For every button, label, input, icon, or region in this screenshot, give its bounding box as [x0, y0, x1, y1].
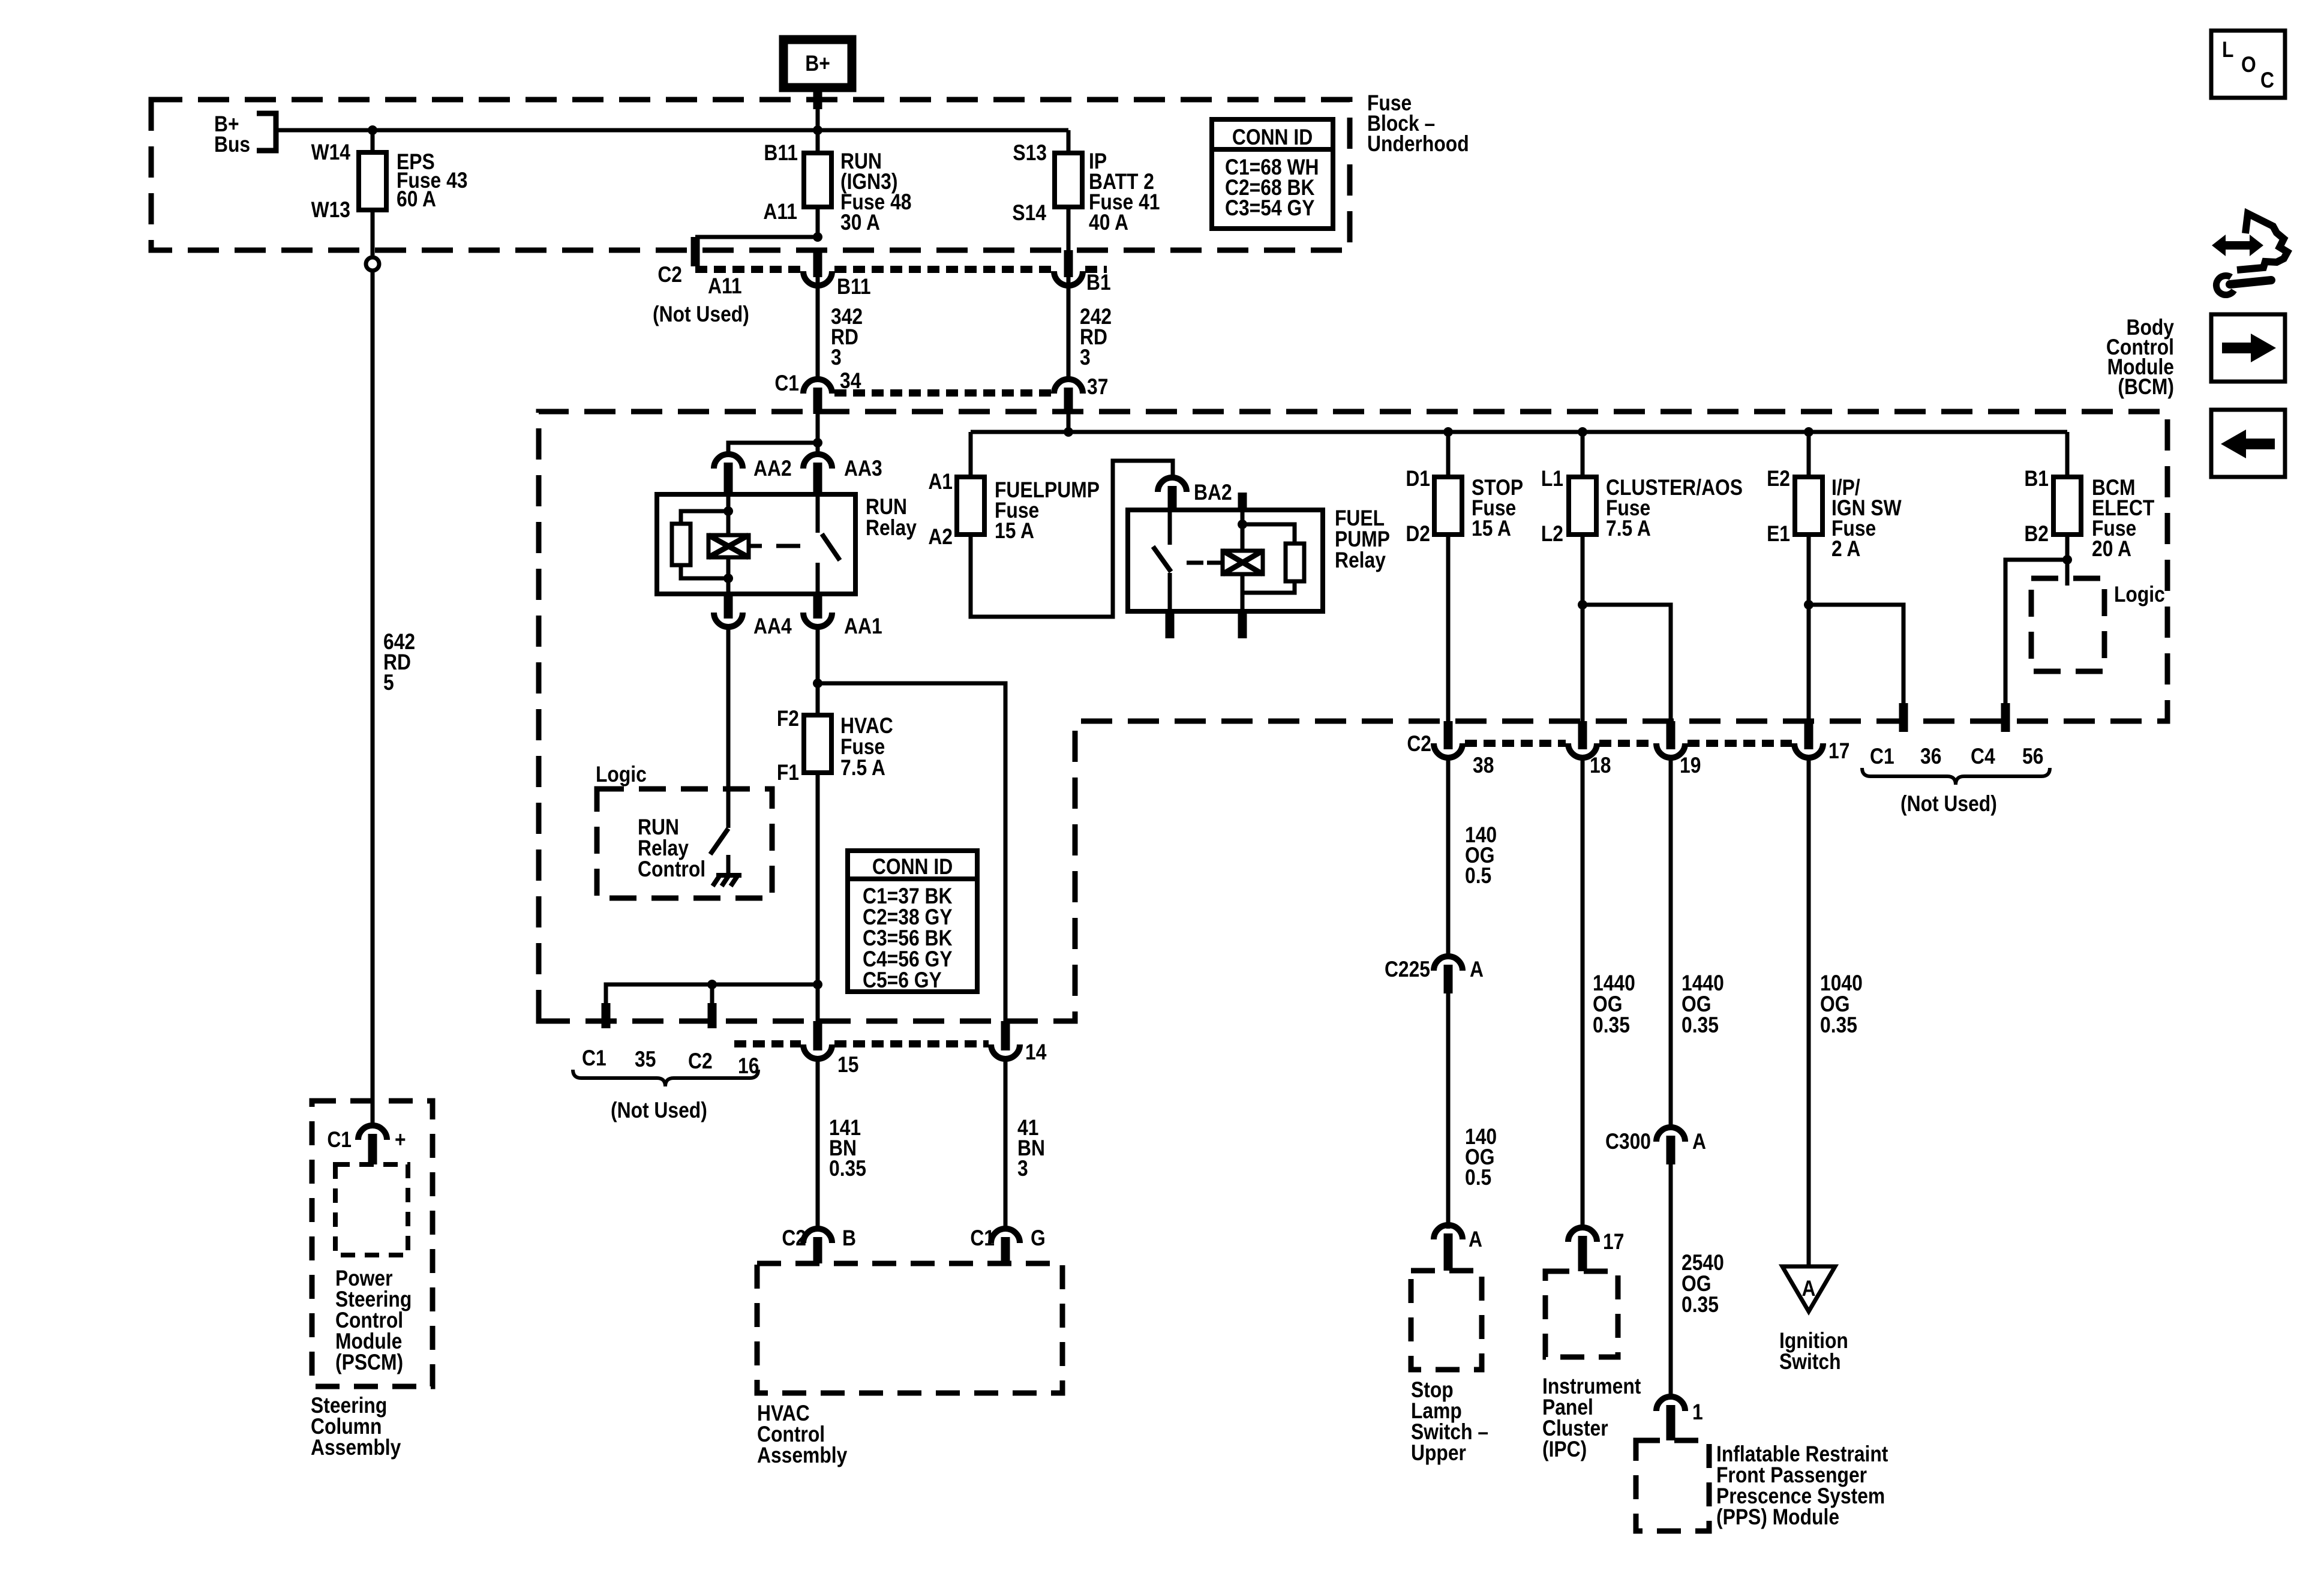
B+ power symbol box: [783, 40, 852, 88]
splice ring at fuse block exit: [366, 257, 379, 271]
resistor branch top wire: [681, 511, 728, 524]
svg-text:A: A: [1802, 1277, 1816, 1301]
svg-text:0.5: 0.5: [1465, 1166, 1491, 1190]
svg-text:CONN ID: CONN ID: [1232, 125, 1313, 150]
wire IP fuse column: [1067, 130, 1071, 250]
pin C1-G: [1001, 1237, 1010, 1263]
svg-text:3: 3: [831, 346, 842, 370]
brace not used left: [573, 1070, 758, 1086]
relay coil RUN: [708, 535, 749, 557]
svg-text:C1: C1: [774, 371, 799, 396]
svg-text:(PSCM): (PSCM): [335, 1350, 403, 1375]
connector cup AA4: [714, 613, 743, 627]
svg-text:AA2: AA2: [753, 457, 792, 481]
junction dot branch to 14: [813, 679, 822, 688]
svg-text:C2: C2: [1407, 732, 1431, 757]
svg-text:Switch: Switch: [1779, 1350, 1841, 1374]
wire B+ feed down to bus: [816, 107, 820, 154]
pin 15: [813, 1021, 822, 1050]
junction dot bus CLUSTER: [1578, 427, 1587, 437]
dotted connector line 34-37: [834, 389, 1052, 397]
wire 141 BN to HVAC: [816, 1059, 820, 1229]
ground stem: [726, 855, 731, 875]
fuel pump relay coil: [1223, 551, 1263, 574]
wire branch to connector 14: [818, 683, 1005, 1021]
svg-text:B: B: [842, 1226, 856, 1251]
svg-text:(Not Used): (Not Used): [1900, 792, 1997, 816]
pin C1-35 not used: [602, 1003, 611, 1028]
connector cup AA2: [714, 454, 743, 469]
svg-text:15 A: 15 A: [995, 519, 1034, 544]
relay switch fixed contact: [816, 494, 820, 533]
ignition switch triangle: [1782, 1266, 1835, 1311]
fuel pump relay linkage dash: [1187, 561, 1203, 565]
wire EPS column: [371, 130, 375, 257]
pin C300-A: [1667, 1136, 1676, 1164]
dotted line 18-19: [1599, 740, 1654, 747]
svg-text:A: A: [1469, 1227, 1482, 1252]
svg-text:C1: C1: [582, 1046, 606, 1071]
pin A stop lamp: [1444, 1233, 1453, 1271]
fuse IP BATT 2 Fuse 41: [1055, 153, 1082, 207]
connector cup A stop lamp: [1434, 1225, 1463, 1239]
svg-text:2 A: 2 A: [1831, 537, 1860, 562]
forward arrow legend box: [2211, 314, 2285, 382]
brace not used right: [1862, 768, 2050, 785]
logic dashed box RUN relay control: [597, 789, 772, 898]
svg-text:37: 37: [1087, 375, 1108, 400]
connector cup C2-38: [1434, 743, 1463, 758]
svg-text:0.35: 0.35: [1682, 1293, 1719, 1317]
svg-text:AA3: AA3: [844, 457, 882, 481]
svg-text:56: 56: [2022, 745, 2043, 769]
svg-text:C2: C2: [657, 263, 682, 287]
wire branch to connector 19: [1583, 605, 1671, 721]
svg-text:35: 35: [635, 1047, 656, 1072]
connector cup 17 bcm: [1794, 743, 1823, 758]
connector cup 37: [1054, 379, 1083, 394]
wire FUELPUMP loop: [971, 432, 1173, 617]
wire branch to connector 56: [2005, 560, 2067, 706]
connector cup C2-B: [803, 1229, 832, 1243]
relay linkage stub: [749, 544, 762, 548]
junction dot ign branch: [1804, 600, 1813, 610]
pin 37 into BCM: [1064, 388, 1073, 414]
pin C2-38: [1444, 721, 1453, 749]
wire 37 to BCM bus: [1067, 413, 1071, 432]
junction dot coil top: [723, 506, 733, 516]
pin 17 bcm: [1804, 721, 1813, 749]
resistor fuel pump relay: [1286, 544, 1304, 581]
svg-text:C1: C1: [970, 1226, 995, 1251]
svg-text:38: 38: [1473, 754, 1494, 778]
RUN relay box: [657, 494, 855, 594]
fuse FUELPUMP: [957, 477, 984, 535]
svg-text:Bus: Bus: [214, 133, 250, 157]
svg-text:D1: D1: [1406, 467, 1430, 491]
pin BA2: [1168, 486, 1177, 510]
fuel pump relay switch blade: [1153, 547, 1171, 572]
svg-text:E1: E1: [1767, 522, 1790, 547]
svg-text:7.5 A: 7.5 A: [1606, 517, 1651, 541]
PSCM inner dashed box: [335, 1164, 408, 1255]
dotted connector line A11-B1 left: [695, 266, 801, 273]
svg-text:30 A: 30 A: [840, 211, 880, 235]
svg-text:D2: D2: [1406, 522, 1430, 547]
wire coil bottom to AA4: [726, 557, 731, 594]
svg-text:7.5 A: 7.5 A: [840, 756, 885, 781]
fuel pump relay linkage stub: [1207, 561, 1223, 565]
svg-text:AA4: AA4: [753, 614, 792, 639]
wire C2-16 stub: [710, 984, 714, 1005]
svg-text:Logic: Logic: [2114, 583, 2165, 607]
wire 242 RD 3: [1067, 271, 1071, 380]
pin 56 not used: [2001, 703, 2010, 732]
svg-text:(PPS) Module: (PPS) Module: [1716, 1505, 1839, 1530]
pin 14: [1001, 1021, 1010, 1050]
pin 17 ipc: [1578, 1236, 1587, 1271]
svg-text:B1: B1: [2024, 467, 2049, 491]
svg-text:19: 19: [1680, 754, 1701, 778]
svg-text:L: L: [2222, 38, 2233, 62]
junction dot bus/EPS: [368, 125, 377, 135]
connector cup B1: [1054, 271, 1083, 286]
svg-text:C: C: [2260, 68, 2274, 93]
wire HVAC fuse down: [816, 773, 820, 1021]
junction dot fuel pump coil: [1238, 520, 1247, 529]
svg-text:B+: B+: [805, 52, 830, 76]
wire A11 branch: [695, 235, 818, 239]
CONN ID table fuse block: [1212, 119, 1333, 229]
pin B1 at fuse block exit: [1064, 250, 1073, 277]
resistor branch bottom wire: [681, 565, 728, 578]
svg-text:0.35: 0.35: [1820, 1013, 1857, 1038]
BCM dashed outline: [539, 412, 2167, 1021]
svg-text:3: 3: [1080, 346, 1091, 370]
wire branch to C1-35/C2-16: [606, 984, 818, 1005]
dotted line left of 15: [734, 1040, 801, 1047]
pin fuel pump relay bottom right: [1238, 611, 1247, 638]
pin C1 pscm: [368, 1134, 377, 1164]
junction dot AA2 branch: [813, 438, 822, 448]
svg-text:36: 36: [1920, 745, 1941, 769]
fuel pump relay switch contact: [1168, 510, 1172, 545]
connector cup AA1: [803, 613, 832, 627]
wire BCM ELECT down: [2065, 535, 2070, 586]
svg-text:40 A: 40 A: [1089, 211, 1128, 235]
dotted connector line right of B1: [1085, 266, 1107, 273]
svg-text:Control: Control: [638, 857, 705, 882]
svg-text:0.35: 0.35: [1593, 1013, 1630, 1038]
svg-text:S14: S14: [1012, 201, 1046, 226]
wire 2540 OG: [1669, 1164, 1673, 1398]
pin C2-B: [813, 1237, 822, 1263]
svg-text:B2: B2: [2024, 522, 2049, 547]
svg-text:G: G: [1031, 1226, 1046, 1251]
pin AA3: [813, 463, 822, 494]
svg-text:O: O: [2241, 53, 2256, 77]
svg-text:W13: W13: [311, 198, 350, 223]
svg-text:AA1: AA1: [844, 614, 882, 639]
svg-text:(Not Used): (Not Used): [653, 302, 749, 327]
connector cup 19: [1656, 743, 1685, 758]
svg-text:BA2: BA2: [1194, 481, 1232, 505]
pin B11 at fuse block exit: [813, 250, 822, 277]
svg-text:0.35: 0.35: [829, 1157, 866, 1181]
wire branch to connector 36: [1809, 605, 1903, 706]
wire AA1 down: [816, 627, 820, 715]
fuse I/P IGN SW: [1795, 477, 1822, 535]
svg-text:A2: A2: [928, 525, 953, 550]
svg-text:C5=6 GY: C5=6 GY: [863, 968, 942, 993]
wire coil branch to resistor: [1242, 524, 1295, 544]
svg-text:F2: F2: [777, 707, 799, 731]
svg-text:14: 14: [1025, 1040, 1046, 1065]
pin fuel pump relay top right: [1238, 493, 1247, 510]
junction dot bus at 37 feed: [1064, 427, 1073, 437]
connector cup C1-34: [803, 379, 832, 394]
wire AA4 to logic switch: [726, 627, 731, 828]
junction dot bus/RUN: [813, 125, 822, 135]
dotted connector line B11-B1: [834, 266, 1052, 273]
wire 41 BN to HVAC: [1004, 1059, 1008, 1229]
pin 19: [1667, 721, 1676, 749]
svg-text:18: 18: [1590, 754, 1611, 778]
svg-text:C1: C1: [1870, 745, 1894, 769]
wire 1040 OG to ignition: [1807, 758, 1811, 1268]
svg-text:B11: B11: [764, 141, 798, 166]
PPS module dashed box: [1636, 1440, 1709, 1531]
svg-text:Relay: Relay: [866, 516, 917, 541]
svg-text:Assembly: Assembly: [757, 1443, 847, 1468]
svg-text:W14: W14: [311, 140, 350, 165]
svg-text:15: 15: [837, 1053, 858, 1077]
svg-text:(IPC): (IPC): [1542, 1437, 1587, 1462]
svg-text:C4: C4: [1971, 745, 1995, 769]
fuse RUN (IGN3) Fuse 48: [804, 153, 831, 207]
wire 140 OG lower: [1446, 993, 1451, 1229]
repair icon double arrow: [2212, 235, 2263, 256]
junction dot coil bottom: [723, 574, 733, 583]
repair icon torn wire outline: [2237, 214, 2287, 270]
svg-text:Underhood: Underhood: [1367, 132, 1469, 157]
fuse EPS Fuse 43: [359, 152, 386, 210]
pin 36 not used: [1899, 703, 1908, 732]
pin C225-A: [1444, 965, 1453, 993]
svg-text:1: 1: [1692, 1400, 1703, 1425]
svg-text:Upper: Upper: [1411, 1441, 1466, 1466]
logic switch blade: [710, 828, 728, 854]
pin C2-A11 not used: [691, 237, 700, 266]
svg-text:15 A: 15 A: [1472, 517, 1511, 541]
wire B+ bus: [276, 128, 1068, 133]
fuse CLUSTER/AOS: [1569, 477, 1596, 535]
svg-text:B1: B1: [1086, 271, 1111, 295]
wire BCM power bus: [971, 430, 2067, 434]
junction dot C2-16 stub: [707, 980, 717, 989]
junction dot bcm elect branch: [2062, 555, 2072, 565]
connector cup BA2: [1158, 478, 1187, 492]
wire 34 down to relay: [816, 413, 820, 454]
dotted line 38-18: [1465, 740, 1566, 747]
svg-text:C2: C2: [688, 1049, 713, 1074]
IPC dashed box: [1545, 1271, 1618, 1357]
svg-text:C1: C1: [327, 1128, 352, 1152]
svg-text:A: A: [1470, 957, 1484, 982]
wire IP/IGN fuse column: [1807, 432, 1811, 721]
dotted line 15-14: [834, 1040, 989, 1047]
svg-text:0.5: 0.5: [1465, 864, 1491, 888]
wire 140 OG upper: [1446, 758, 1451, 957]
wire 1440 OG to IPC: [1581, 758, 1585, 1227]
relay linkage dash: [776, 544, 800, 548]
wire branch to AA2: [728, 443, 818, 454]
svg-text:A: A: [1692, 1130, 1706, 1154]
connector cup 18: [1568, 743, 1597, 758]
fuel pump relay box: [1128, 510, 1323, 611]
repair icon wrench: [2216, 276, 2234, 295]
svg-text:34: 34: [840, 369, 861, 394]
wire top pin to coil: [1241, 510, 1245, 551]
wire CLUSTER fuse column: [1581, 432, 1585, 721]
wire STOP fuse column: [1446, 432, 1451, 721]
svg-text:C225: C225: [1385, 957, 1430, 982]
dotted line 19-17: [1688, 740, 1792, 747]
connector cup C1-G: [991, 1229, 1020, 1243]
fuse BCM ELECT: [2053, 477, 2081, 535]
svg-text:F1: F1: [777, 761, 799, 785]
svg-text:CONN ID: CONN ID: [872, 855, 953, 879]
fuse HVAC: [804, 715, 831, 773]
pin 1 pps: [1667, 1405, 1676, 1440]
wire BCM ELECT feed: [2065, 432, 2070, 477]
svg-text:0.35: 0.35: [1682, 1013, 1719, 1038]
svg-text:5: 5: [383, 671, 394, 695]
pin 34 into BCM: [813, 388, 822, 414]
svg-text:L1: L1: [1541, 467, 1563, 491]
steering column assembly dashed box: [312, 1101, 433, 1386]
junction dot bus STOP: [1443, 427, 1453, 437]
chassis ground symbol: [713, 875, 741, 886]
svg-text:3: 3: [1017, 1157, 1028, 1181]
CONN ID table BCM: [848, 851, 977, 992]
svg-text:Relay: Relay: [1335, 548, 1386, 573]
svg-text:C3=54 GY: C3=54 GY: [1225, 196, 1314, 221]
fuel pump relay switch lower: [1168, 573, 1172, 611]
svg-text:S13: S13: [1013, 141, 1047, 166]
pin from B+ box: [813, 88, 822, 109]
connector cup C300-A: [1656, 1127, 1685, 1142]
pin 18: [1578, 721, 1587, 749]
wire 1440 OG to C300: [1669, 758, 1673, 1128]
pin AA2: [724, 463, 733, 494]
svg-text:17: 17: [1603, 1230, 1624, 1254]
pin AA4: [724, 594, 733, 619]
svg-text:Logic: Logic: [596, 763, 647, 787]
svg-text:A1: A1: [928, 470, 953, 494]
svg-text:A11: A11: [763, 200, 797, 224]
stop lamp switch dashed box: [1411, 1271, 1482, 1370]
svg-text:+: +: [395, 1128, 406, 1152]
svg-text:(Not Used): (Not Used): [611, 1098, 707, 1123]
connector cup B11: [803, 271, 832, 286]
wire coil bottom to pin: [1241, 593, 1245, 611]
connector cup AA3: [803, 454, 832, 469]
resistor RUN relay: [672, 524, 690, 565]
junction dot A11 branch: [813, 232, 822, 242]
svg-text:60 A: 60 A: [397, 187, 436, 212]
svg-text:E2: E2: [1767, 467, 1790, 491]
connector cup 14: [991, 1044, 1020, 1059]
svg-text:17: 17: [1828, 739, 1849, 764]
LOC legend box: [2211, 31, 2285, 98]
svg-text:A11: A11: [708, 274, 742, 299]
fuse block underhood dashed outline: [151, 100, 1350, 250]
svg-text:L2: L2: [1541, 522, 1563, 547]
svg-text:20 A: 20 A: [2092, 537, 2131, 562]
B+ bus bracket: [257, 113, 276, 151]
junction dot not-used branch: [813, 980, 822, 989]
connector cup 1 pps: [1656, 1397, 1685, 1411]
connector cup C1 pscm: [358, 1125, 387, 1140]
wire 342 RD 3: [816, 271, 820, 380]
connector cup 17 ipc: [1568, 1227, 1597, 1242]
junction dot bus IP/IGN: [1804, 427, 1813, 437]
HVAC control assembly dashed box: [757, 1263, 1062, 1393]
logic dashed box BCM: [2031, 578, 2104, 671]
connector cup C225-A: [1434, 956, 1463, 971]
pin AA1: [813, 594, 822, 619]
pin fuel pump relay bottom left: [1166, 611, 1175, 638]
svg-text:C300: C300: [1605, 1130, 1651, 1154]
svg-text:(BCM): (BCM): [2118, 375, 2174, 400]
relay switch blade: [822, 534, 840, 560]
wire RUN fuse column: [816, 130, 820, 237]
svg-text:C2: C2: [782, 1226, 806, 1251]
back arrow legend box: [2211, 410, 2285, 477]
svg-text:Assembly: Assembly: [311, 1436, 401, 1460]
fuse STOP: [1434, 477, 1462, 535]
connector cup 15: [803, 1044, 832, 1059]
svg-text:B11: B11: [837, 275, 871, 299]
wire 642 RD 5 to PSCM: [371, 272, 375, 1125]
pin C2-16 not used: [708, 1003, 717, 1028]
wire coil bottom loop: [1242, 574, 1295, 593]
junction dot cluster branch: [1578, 600, 1587, 610]
relay coil feed wire: [726, 494, 731, 535]
relay switch lower contact: [816, 563, 820, 594]
